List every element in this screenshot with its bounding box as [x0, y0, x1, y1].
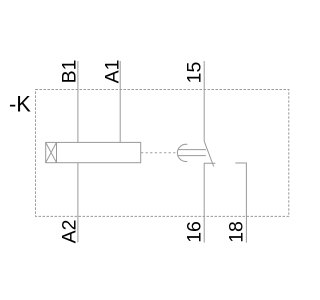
wire A2 — [77, 163, 79, 243]
svg-text:15: 15 — [184, 62, 206, 84]
mechanical link dashed — [141, 152, 175, 154]
contact arm (moving contact 15) — [204, 141, 214, 166]
coil K body — [46, 142, 141, 162]
relay enclosure dashed box — [36, 90, 289, 217]
svg-text:A2: A2 — [58, 220, 80, 244]
svg-text:16: 16 — [183, 221, 205, 243]
actuator arc — [177, 144, 187, 161]
svg-text:A1: A1 — [101, 60, 123, 84]
wire A1 — [119, 61, 121, 142]
coil X-box — [46, 142, 57, 162]
svg-text:B1: B1 — [59, 60, 81, 84]
contact 16 terminal — [204, 163, 215, 242]
svg-text:18: 18 — [225, 221, 247, 243]
wire B1 — [77, 61, 79, 142]
contact 18 terminal — [235, 163, 246, 243]
actuator link lines — [178, 149, 206, 151]
svg-text:-K: -K — [9, 92, 31, 117]
wire 15 — [203, 61, 205, 141]
